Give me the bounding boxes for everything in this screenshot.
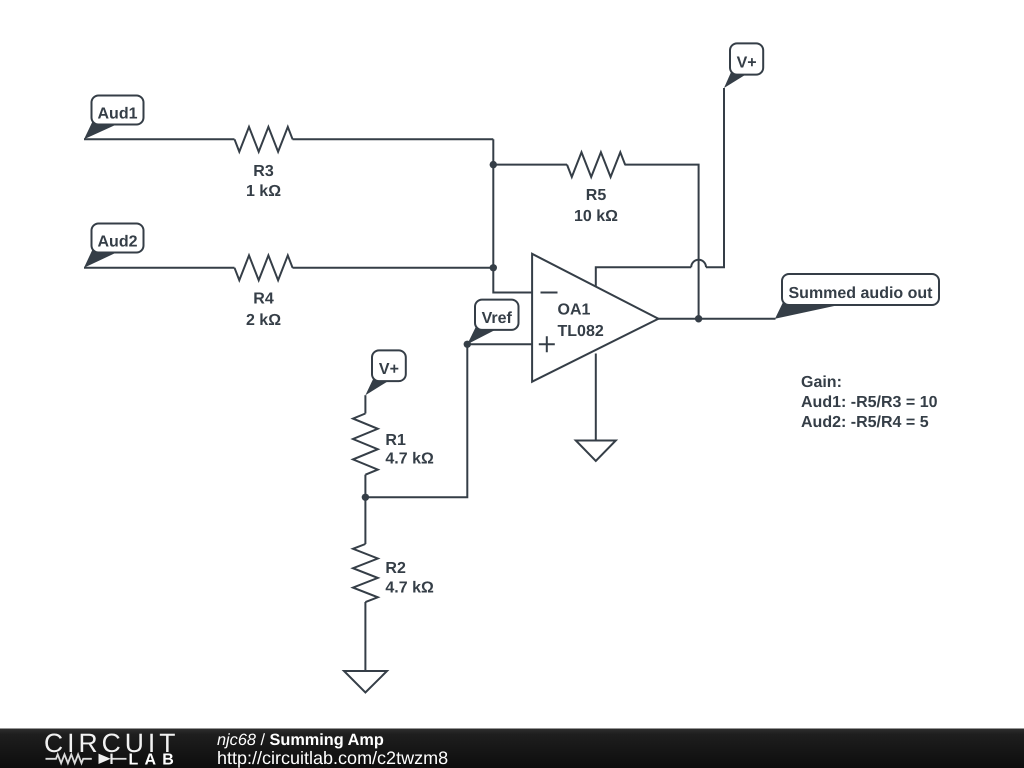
svg-text:R4: R4 <box>253 290 274 307</box>
svg-text:R3: R3 <box>253 163 274 180</box>
wire vertical bus down from R3 line <box>493 139 532 292</box>
node junction R4 bus <box>490 264 497 271</box>
svg-text:R1: R1 <box>385 432 406 449</box>
svg-text:Gain:: Gain: <box>801 374 842 391</box>
resistor R1 <box>353 414 378 475</box>
flag Aud2 <box>84 250 118 268</box>
node Vref junction <box>464 341 471 348</box>
plus input glyph <box>539 336 555 352</box>
wire R4 to node <box>293 267 494 269</box>
svg-text:R5: R5 <box>586 187 607 204</box>
wire node to R5 <box>493 164 567 166</box>
resistor R2 <box>353 544 378 602</box>
wire hop to op-amp power stub <box>596 267 691 286</box>
svg-text:TL082: TL082 <box>558 323 604 340</box>
minus input glyph <box>541 292 558 294</box>
resistor R4 <box>235 255 293 280</box>
node junction R3/R5 <box>490 161 497 168</box>
op-amp bottom power stub <box>595 354 597 441</box>
ground under R2 <box>344 671 387 693</box>
wire Aud2 to R4 <box>84 267 235 269</box>
svg-text:Aud2: -R5/R4 = 5: Aud2: -R5/R4 = 5 <box>801 414 929 431</box>
svg-text:1 kΩ: 1 kΩ <box>246 183 281 200</box>
op-amp OA1 <box>532 254 658 382</box>
wire R1 to tap node <box>364 475 366 544</box>
wire R5 to output node <box>625 165 699 319</box>
svg-text:2 kΩ: 2 kΩ <box>246 312 281 329</box>
svg-text:http://circuitlab.com/c2twzm8: http://circuitlab.com/c2twzm8 <box>217 748 448 768</box>
wire Vref down to divider tap <box>365 344 467 497</box>
svg-text:Aud2: Aud2 <box>98 233 138 250</box>
svg-text:Vref: Vref <box>482 310 513 327</box>
svg-text:10 kΩ: 10 kΩ <box>574 208 618 225</box>
resistor R5 <box>567 152 625 177</box>
wire Aud1 to R3 <box>84 138 235 140</box>
flag V+ top <box>724 72 746 88</box>
wire R3 to node <box>293 138 494 140</box>
wire output <box>658 318 775 320</box>
svg-text:LAB: LAB <box>129 751 180 768</box>
node divider tap <box>362 494 369 501</box>
svg-text:Summed audio out: Summed audio out <box>789 285 934 302</box>
wire V+ drop to power pin <box>706 88 724 267</box>
svg-text:4.7 kΩ: 4.7 kΩ <box>385 451 434 468</box>
svg-text:R2: R2 <box>385 560 406 577</box>
ground under op-amp <box>576 441 616 462</box>
wire V+ to R1 <box>364 395 366 413</box>
flag V+ lower <box>365 379 388 395</box>
svg-text:OA1: OA1 <box>558 301 591 318</box>
svg-text:njc68 / Summing Amp: njc68 / Summing Amp <box>217 731 384 749</box>
wire Vref to plus input <box>467 343 532 345</box>
flag Vref <box>467 327 495 345</box>
flag Summed audio out <box>775 302 840 319</box>
flag Aud1 <box>84 122 118 140</box>
wire hop over R5 leg <box>691 260 706 267</box>
svg-text:V+: V+ <box>379 361 399 378</box>
logo resistor doodle <box>46 754 92 763</box>
svg-text:4.7 kΩ: 4.7 kΩ <box>385 579 434 596</box>
resistor R3 <box>235 127 293 152</box>
svg-text:Aud1: Aud1 <box>98 105 138 122</box>
svg-text:Aud1: -R5/R3 = 10: Aud1: -R5/R3 = 10 <box>801 394 938 411</box>
wire R2 to ground <box>364 602 366 671</box>
svg-text:V+: V+ <box>737 54 757 71</box>
node output junction <box>695 315 702 322</box>
logo diode <box>99 754 111 764</box>
